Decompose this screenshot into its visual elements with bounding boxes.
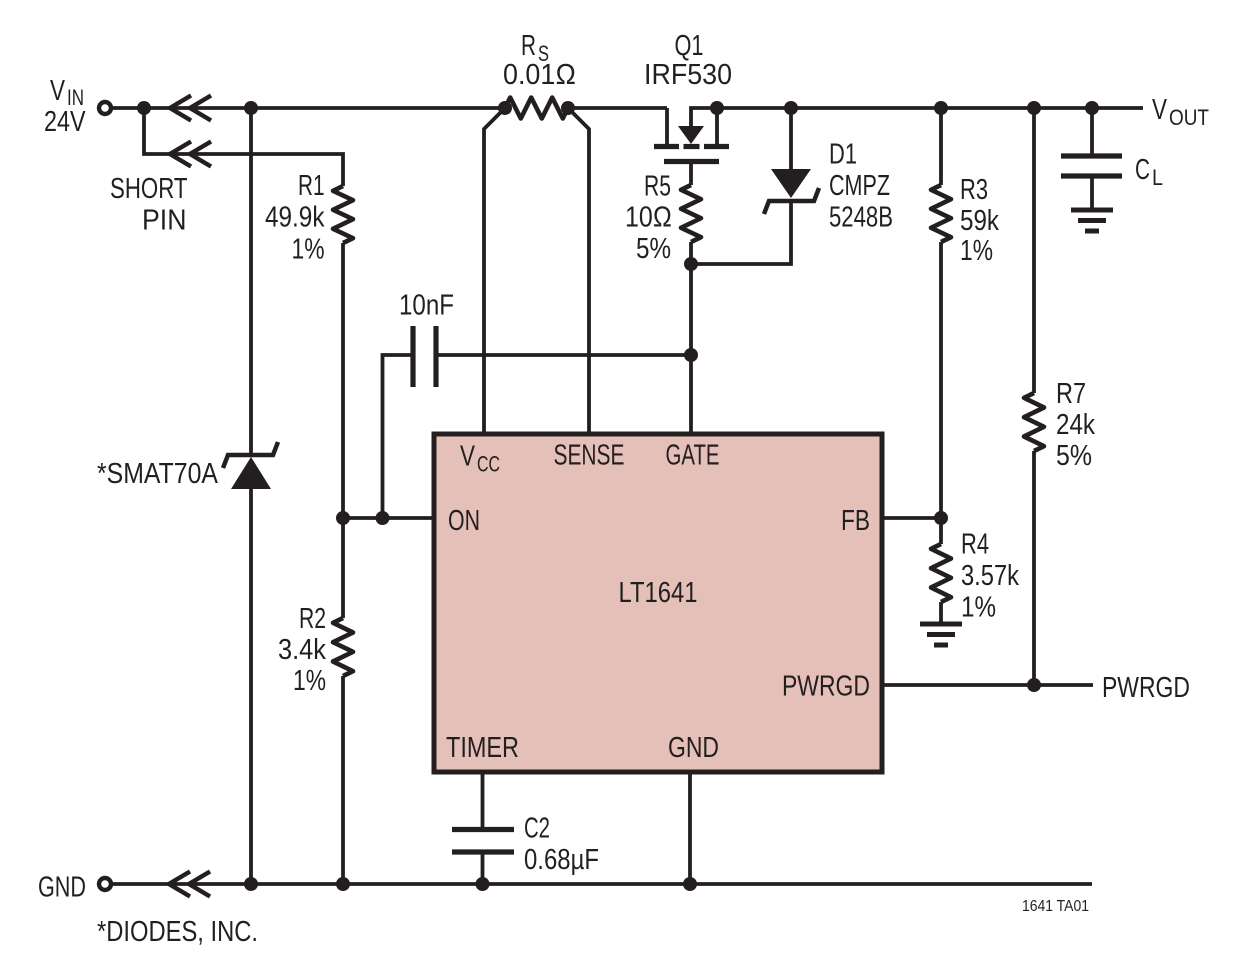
svg-text:V: V (50, 75, 66, 107)
wire 10nF to gate line (436, 353, 691, 357)
svg-text:V: V (1152, 94, 1168, 126)
wire top rail right of Q1 (717, 106, 1143, 110)
svg-text:PIN: PIN (142, 205, 187, 237)
node GND rail C2 junction (476, 877, 490, 891)
node RS left terminal junction (498, 101, 512, 115)
wire R2 column bottom (341, 676, 345, 884)
node 10nF / gate line junction (684, 348, 698, 362)
transistor Q1 drain lead (665, 108, 669, 144)
resistor R2 (333, 618, 353, 676)
wire R1 column mid (341, 243, 345, 618)
connector arrows gnd row (169, 872, 210, 897)
svg-text:IRF530: IRF530 (644, 59, 732, 91)
svg-text:OUT: OUT (1169, 105, 1209, 130)
node R5 bottom / D1 anode junction (684, 257, 698, 271)
svg-text:0.68µF: 0.68µF (524, 844, 599, 876)
wire FB row (882, 516, 941, 520)
wire bottom GND rail (111, 882, 1092, 886)
svg-text:Q1: Q1 (675, 30, 704, 62)
transistor Q1 body arrow stem (691, 108, 717, 127)
wire SENSE tap (568, 108, 589, 434)
svg-text:R4: R4 (961, 529, 989, 561)
node VIN short-pin tap junction (137, 101, 151, 115)
svg-text:1%: 1% (292, 234, 325, 266)
svg-text:L: L (1152, 165, 1163, 190)
terminal VIN circle (99, 102, 111, 114)
svg-text:V: V (460, 441, 476, 473)
node GND rail R2 junction (336, 877, 350, 891)
wire VCC tap (484, 108, 505, 434)
svg-text:D1: D1 (829, 139, 857, 171)
svg-text:CMPZ: CMPZ (829, 170, 890, 202)
resistor R4 (931, 544, 951, 602)
svg-text:5%: 5% (1056, 440, 1092, 472)
svg-text:R: R (521, 30, 536, 62)
svg-text:10Ω: 10Ω (625, 202, 672, 234)
svg-text:SENSE: SENSE (554, 440, 625, 472)
wire D1 top lead (789, 108, 793, 169)
svg-text:PWRGD: PWRGD (1102, 672, 1190, 704)
wire top rail RS to Q1 (568, 106, 667, 110)
connector arrows top row (170, 96, 211, 121)
node Q1 source / rail junction (710, 101, 724, 115)
wire R4 top lead (939, 518, 943, 544)
node RS right terminal junction (561, 101, 575, 115)
resistor RS sense (505, 98, 568, 119)
wire C2 bottom lead (481, 854, 485, 884)
svg-text:TIMER: TIMER (446, 732, 519, 764)
svg-text:C: C (1135, 154, 1150, 186)
svg-text:3.57k: 3.57k (961, 560, 1019, 592)
svg-text:*DIODES, INC.: *DIODES, INC. (97, 916, 258, 948)
wire CL bottom lead (1090, 178, 1094, 208)
svg-text:R2: R2 (299, 603, 326, 635)
svg-text:LT1641: LT1641 (619, 577, 698, 609)
svg-text:R1: R1 (298, 170, 325, 202)
svg-text:SHORT: SHORT (110, 173, 188, 205)
wire R7 column bottom (1032, 451, 1036, 685)
node VIN rail / SMAT70A column junction (244, 101, 258, 115)
node R3 rail junction (934, 101, 948, 115)
svg-text:GND: GND (38, 872, 86, 904)
connector arrows short pin row (170, 142, 211, 167)
svg-text:C2: C2 (524, 813, 550, 845)
svg-text:3.4k: 3.4k (278, 634, 326, 666)
svg-text:0.01Ω: 0.01Ω (503, 59, 576, 91)
transistor Q1 source lead (715, 108, 719, 144)
wire PWRGD row (882, 683, 1093, 687)
resistor R1 (333, 186, 353, 243)
diode D1 zener bar (764, 188, 819, 214)
svg-text:10nF: 10nF (399, 290, 454, 322)
wire ON row (343, 516, 434, 520)
svg-text:59k: 59k (960, 205, 999, 237)
svg-text:R5: R5 (644, 171, 671, 203)
svg-text:PWRGD: PWRGD (782, 671, 870, 703)
resistor R5 (681, 185, 701, 242)
node ON row 10nF junction (376, 511, 390, 525)
wire SMAT70A column bottom (249, 489, 253, 884)
node R7 rail junction (1027, 101, 1041, 115)
wire top rail left of Q1 (111, 106, 505, 110)
node GND rail SMAT70A junction (244, 877, 258, 891)
capacitor C2 plates (452, 830, 514, 853)
capacitor 10nF plates (413, 326, 436, 387)
svg-text:5248B: 5248B (829, 202, 893, 234)
terminal GND circle (99, 878, 111, 890)
wire R5 to D1 link (691, 203, 791, 264)
transistor Q1 channel bars (654, 144, 729, 149)
diode SMAT70A zener bar (223, 442, 278, 468)
resistor R3 (931, 185, 951, 242)
node CL rail junction (1085, 101, 1099, 115)
wire R4 bottom lead (939, 602, 943, 622)
wire short-pin drop (144, 108, 343, 186)
resistor R7 (1024, 393, 1044, 451)
node FB / R3-R4 junction (934, 511, 948, 525)
transistor Q1 gate bar (664, 159, 719, 164)
wire R3 column top (939, 108, 943, 185)
wire R3 column bottom (939, 242, 943, 518)
ground below CL (1071, 210, 1113, 231)
IC U1 LT1641 body (434, 434, 882, 772)
wire SMAT70A column top (249, 108, 253, 453)
transistor Q1 body arrowhead (678, 126, 704, 144)
svg-text:1%: 1% (960, 235, 993, 267)
svg-text:R7: R7 (1056, 378, 1086, 410)
svg-text:GND: GND (668, 732, 719, 764)
wire TIMER lead (481, 772, 485, 828)
node GND rail GND-pin junction (683, 877, 697, 891)
svg-text:1641 TA01: 1641 TA01 (1022, 898, 1089, 915)
node D1 cathode rail junction (784, 101, 798, 115)
svg-text:49.9k: 49.9k (265, 202, 325, 234)
capacitor CL plates (1061, 156, 1122, 176)
node PWRGD / R7 junction (1027, 678, 1041, 692)
diode D1 zener triangle (771, 169, 811, 198)
node ON row R1-R2 junction (336, 511, 350, 525)
svg-text:R3: R3 (960, 174, 988, 206)
svg-text:GATE: GATE (666, 440, 720, 472)
svg-text:1%: 1% (961, 592, 996, 624)
wire gate column to GATE pin (689, 242, 693, 434)
wire CL top lead (1090, 108, 1094, 154)
diode SMAT70A triangle (231, 457, 271, 489)
wire 10nF left leg (383, 355, 414, 518)
svg-text:1%: 1% (293, 665, 326, 697)
ground below R4 (920, 624, 962, 645)
svg-text:CC: CC (477, 452, 500, 477)
wire gate column (689, 164, 693, 185)
svg-text:FB: FB (841, 505, 870, 537)
svg-text:24k: 24k (1056, 409, 1095, 441)
svg-text:*SMAT70A: *SMAT70A (97, 458, 219, 490)
wire GND pin lead (688, 772, 692, 884)
svg-text:ON: ON (448, 505, 480, 537)
svg-text:5%: 5% (636, 233, 671, 265)
svg-text:24V: 24V (44, 106, 86, 138)
wire R7 column top (1032, 108, 1036, 393)
